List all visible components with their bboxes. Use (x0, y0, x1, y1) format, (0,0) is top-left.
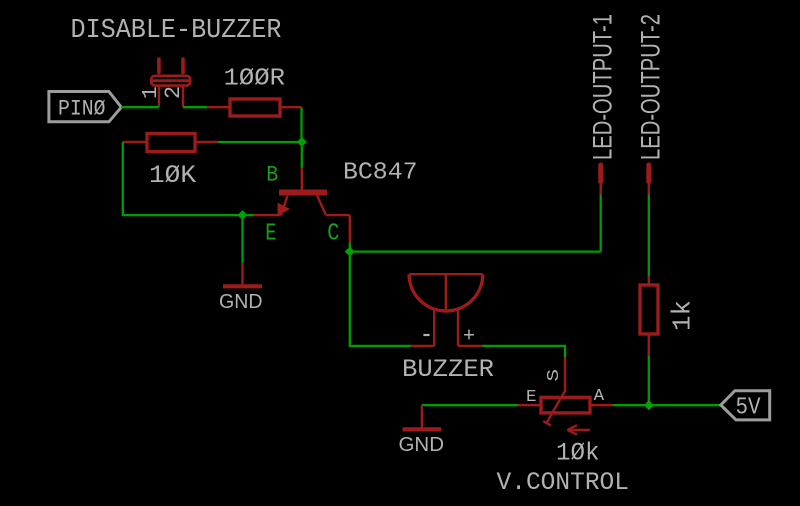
potentiometer R4 wiper (543, 390, 566, 426)
flag PIN0 (49, 92, 121, 122)
svg-text:B: B (266, 162, 278, 187)
wire node A to base pin (301, 142, 303, 168)
net pin LED-OUTPUT-1 (598, 165, 603, 195)
net pin LED-OUTPUT-2 (646, 165, 651, 195)
wire node C down to buzzer (350, 252, 411, 346)
svg-text:5V: 5V (736, 395, 762, 422)
resistor R1 100R leads (207, 106, 302, 108)
svg-text:2: 2 (161, 86, 186, 99)
wire R2 left down to emitter rail (123, 142, 243, 215)
wire node B to emitter pin (243, 214, 254, 216)
transistor Q1 collector (317, 195, 350, 242)
svg-text:1: 1 (140, 86, 163, 99)
svg-text:E: E (526, 388, 537, 407)
svg-text:DISABLE-BUZZER: DISABLE-BUZZER (71, 16, 282, 46)
svg-text:1ØØR: 1ØØR (224, 66, 286, 93)
svg-text:BUZZER: BUZZER (402, 355, 494, 384)
svg-text:S: S (545, 369, 564, 382)
svg-text:A: A (594, 387, 605, 406)
svg-text:PINØ: PINØ (58, 97, 106, 122)
svg-text:GND: GND (219, 291, 263, 313)
transistor Q1 emitter (254, 196, 288, 215)
transistor Q1 emitter arrow (278, 203, 291, 217)
svg-text:1Øk: 1Øk (556, 439, 600, 468)
wire pot A to 5V flag (613, 404, 721, 406)
svg-text:1k: 1k (668, 300, 698, 331)
resistor R2 10K leads (123, 141, 218, 143)
jumper SJ body (151, 76, 190, 86)
node B junction (238, 210, 248, 220)
transistor Q1 base lead (301, 168, 303, 190)
svg-text:C: C (327, 221, 339, 248)
wire R1 to node A (300, 107, 302, 142)
wire R2 to node A (218, 141, 302, 143)
jumper pin 2 (182, 86, 184, 108)
svg-text:V.CONTROL: V.CONTROL (497, 468, 630, 497)
buzzer LS1 dome (409, 274, 483, 311)
resistor R3 1k leads (648, 276, 650, 355)
potentiometer R4 S pin (564, 358, 566, 391)
node A junction (297, 137, 307, 147)
jumper pin 1 (158, 86, 160, 108)
svg-text:1ØK: 1ØK (149, 161, 196, 190)
resistor R1 100R body (230, 99, 280, 116)
svg-text:E: E (265, 221, 276, 248)
wire LED-OUTPUT-1 vertical (600, 195, 602, 252)
jumper SJ stubs (159, 59, 183, 73)
ground GND2 (403, 405, 442, 429)
svg-text:LED-OUTPUT-1: LED-OUTPUT-1 (588, 14, 618, 160)
svg-text:GND: GND (399, 434, 445, 456)
wire R3 to node D (648, 355, 650, 405)
wire PIN0 to jumper pin1 (121, 106, 159, 108)
resistor R3 1k body (640, 285, 658, 334)
transistor Q1 bar (279, 190, 327, 196)
node D junction (644, 400, 654, 410)
wire node B down to GND1 (241, 215, 243, 263)
wire buzzer plus to pot S (482, 346, 565, 358)
ground GND1 (223, 263, 262, 286)
svg-text:BC847: BC847 (343, 160, 418, 187)
potentiometer R4 leads (518, 404, 613, 406)
svg-text:+: + (463, 326, 475, 349)
buzzer minus label (423, 334, 429, 336)
node C junction (345, 247, 355, 257)
wire LED-OUTPUT-2 to R3 (648, 195, 650, 277)
flag 5V (721, 391, 770, 420)
svg-text:LED-OUTPUT-2: LED-OUTPUT-2 (636, 14, 666, 160)
potentiometer R4 arrow (567, 425, 590, 434)
wire node C to LED-OUTPUT-1 (350, 250, 601, 252)
wire jumper pin2 to R1 (183, 106, 207, 108)
buzzer LS1 legs (411, 309, 482, 346)
wire buzzer minus rail to GND2 and pot E (422, 404, 518, 406)
resistor R2 10K body (147, 134, 195, 152)
potentiometer R4 body (541, 397, 590, 413)
wire collector pin to node C (349, 243, 351, 252)
